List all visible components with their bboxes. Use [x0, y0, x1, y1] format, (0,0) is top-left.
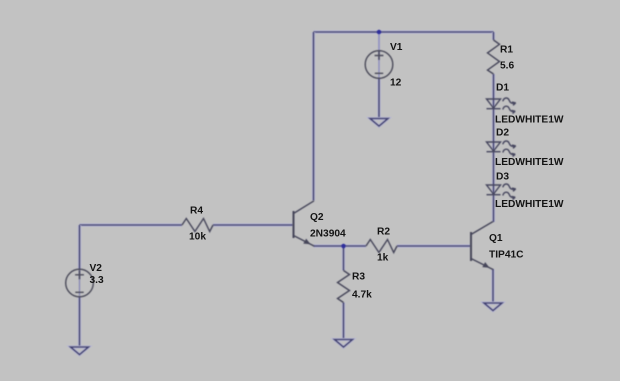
ground below V1 [370, 119, 388, 127]
svg-text:1k: 1k [377, 252, 389, 263]
wire R4 to Q2 base [213, 223, 293, 226]
value 3.3 [90, 275, 104, 286]
wire D1 to D2 [492, 109, 495, 152]
value 5.6 [500, 60, 514, 71]
value 2N3904 [310, 228, 346, 239]
svg-text:10k: 10k [189, 231, 206, 242]
wire V2 to R4 [80, 223, 183, 226]
value 4.7k [352, 290, 372, 301]
wire R1 to D1 [492, 74, 495, 109]
svg-text:12: 12 [390, 77, 402, 88]
wire D2 to D3 [492, 152, 495, 195]
svg-text:4.7k: 4.7k [352, 290, 372, 301]
label D3 [496, 171, 509, 182]
svg-text:R2: R2 [377, 226, 390, 237]
wire right rail to R1 [492, 32, 495, 40]
svg-text:2N3904: 2N3904 [310, 228, 346, 239]
value 1k [377, 252, 389, 263]
svg-text:LEDWHITE1W: LEDWHITE1W [495, 199, 564, 210]
label R4 [190, 205, 203, 216]
junction node A [341, 244, 345, 248]
LED D2 [487, 141, 516, 157]
wire Q1 emitter to ground [491, 269, 494, 303]
transistor Q2 [294, 201, 315, 246]
wire R2 to Q1 base [397, 244, 471, 247]
svg-text:TIP41C: TIP41C [489, 250, 524, 261]
label D2 [496, 127, 509, 138]
junction node at V1 top [377, 30, 381, 34]
svg-text:D3: D3 [496, 171, 509, 182]
label V1 [390, 42, 403, 53]
label R3 [352, 272, 365, 283]
svg-text:3.3: 3.3 [90, 275, 104, 286]
wire V1 bottom lead [377, 78, 380, 119]
wire top rail [314, 30, 494, 33]
label R1 [500, 44, 513, 55]
svg-text:Q1: Q1 [489, 233, 503, 244]
ground below Q1 [484, 303, 502, 311]
svg-text:V1: V1 [390, 42, 403, 53]
value LEDWHITE1W [495, 114, 564, 125]
LED D1 [487, 98, 516, 114]
svg-text:D1: D1 [496, 82, 509, 93]
label R2 [377, 226, 390, 237]
svg-text:LEDWHITE1W: LEDWHITE1W [495, 157, 564, 168]
label V2 [90, 263, 103, 274]
label D1 [496, 82, 509, 93]
svg-text:D2: D2 [496, 127, 509, 138]
svg-text:LEDWHITE1W: LEDWHITE1W [495, 114, 564, 125]
svg-text:R3: R3 [352, 272, 365, 283]
wire node A to R2 [344, 244, 367, 247]
value LEDWHITE1W [495, 199, 564, 210]
svg-text:Q2: Q2 [310, 212, 324, 223]
label Q2 [310, 212, 324, 223]
resistor R1 [488, 40, 500, 74]
value LEDWHITE1W [495, 157, 564, 168]
ground below V2 [71, 347, 89, 355]
wire V2 bottom lead [78, 297, 81, 348]
wire R3 to ground [342, 303, 345, 340]
voltage source V1 [365, 51, 393, 79]
resistor R2 [366, 240, 397, 253]
wire Q2 emitter to node A [314, 244, 344, 247]
value 12 [390, 77, 402, 88]
svg-text:R4: R4 [190, 205, 203, 216]
voltage source V2 [66, 269, 94, 297]
wire D3 to Q1 collector [492, 195, 495, 223]
value TIP41C [489, 250, 524, 261]
ground below R3 [335, 340, 353, 348]
label Q1 [489, 233, 503, 244]
value 10k [189, 231, 206, 242]
svg-text:V2: V2 [90, 263, 103, 274]
resistor R3 [338, 271, 350, 303]
transistor Q1 [471, 222, 493, 270]
wire V2 top lead [78, 225, 81, 296]
LED D3 [487, 184, 516, 200]
wire left rail to Q2 collector [312, 32, 315, 201]
resistor R4 [182, 219, 213, 232]
wire V1 top lead [378, 32, 380, 78]
svg-text:5.6: 5.6 [500, 60, 514, 71]
wire node A to R3 [342, 246, 345, 271]
svg-text:R1: R1 [500, 44, 513, 55]
